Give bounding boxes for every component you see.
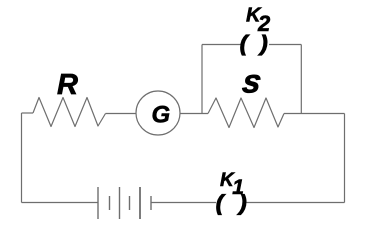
svg-text:): ) — [238, 192, 247, 215]
galvanometer G — [136, 91, 180, 135]
wire: bottom right segment — [247, 202, 345, 204]
wire: bottom left segment — [22, 202, 99, 204]
svg-text:(: ( — [216, 192, 225, 215]
wire: K2 branch top-left horizontal — [202, 44, 241, 46]
wire: left vertical — [21, 113, 23, 203]
resistor S — [208, 98, 284, 128]
node B: K2 branch right vertical — [300, 45, 302, 114]
svg-text:): ) — [259, 33, 268, 56]
svg-text:K2: K2 — [246, 4, 271, 36]
wire: galvanometer to node A — [180, 113, 208, 115]
battery B1 — [98, 187, 151, 219]
svg-text:R: R — [57, 69, 78, 101]
node A: K2 branch left vertical — [201, 45, 203, 114]
resistor R — [33, 98, 106, 127]
wire: S to node B and to right corner — [284, 113, 345, 115]
wire: top-left stub to R — [22, 112, 34, 114]
svg-text:s: s — [240, 64, 264, 101]
wire: battery to switch K1 — [151, 202, 216, 204]
wire: right vertical — [344, 114, 346, 203]
wire: R to galvanometer — [106, 113, 137, 115]
svg-text:(: ( — [240, 33, 249, 56]
wire: K2 branch top-right horizontal — [269, 44, 301, 46]
svg-text:G: G — [152, 102, 171, 129]
